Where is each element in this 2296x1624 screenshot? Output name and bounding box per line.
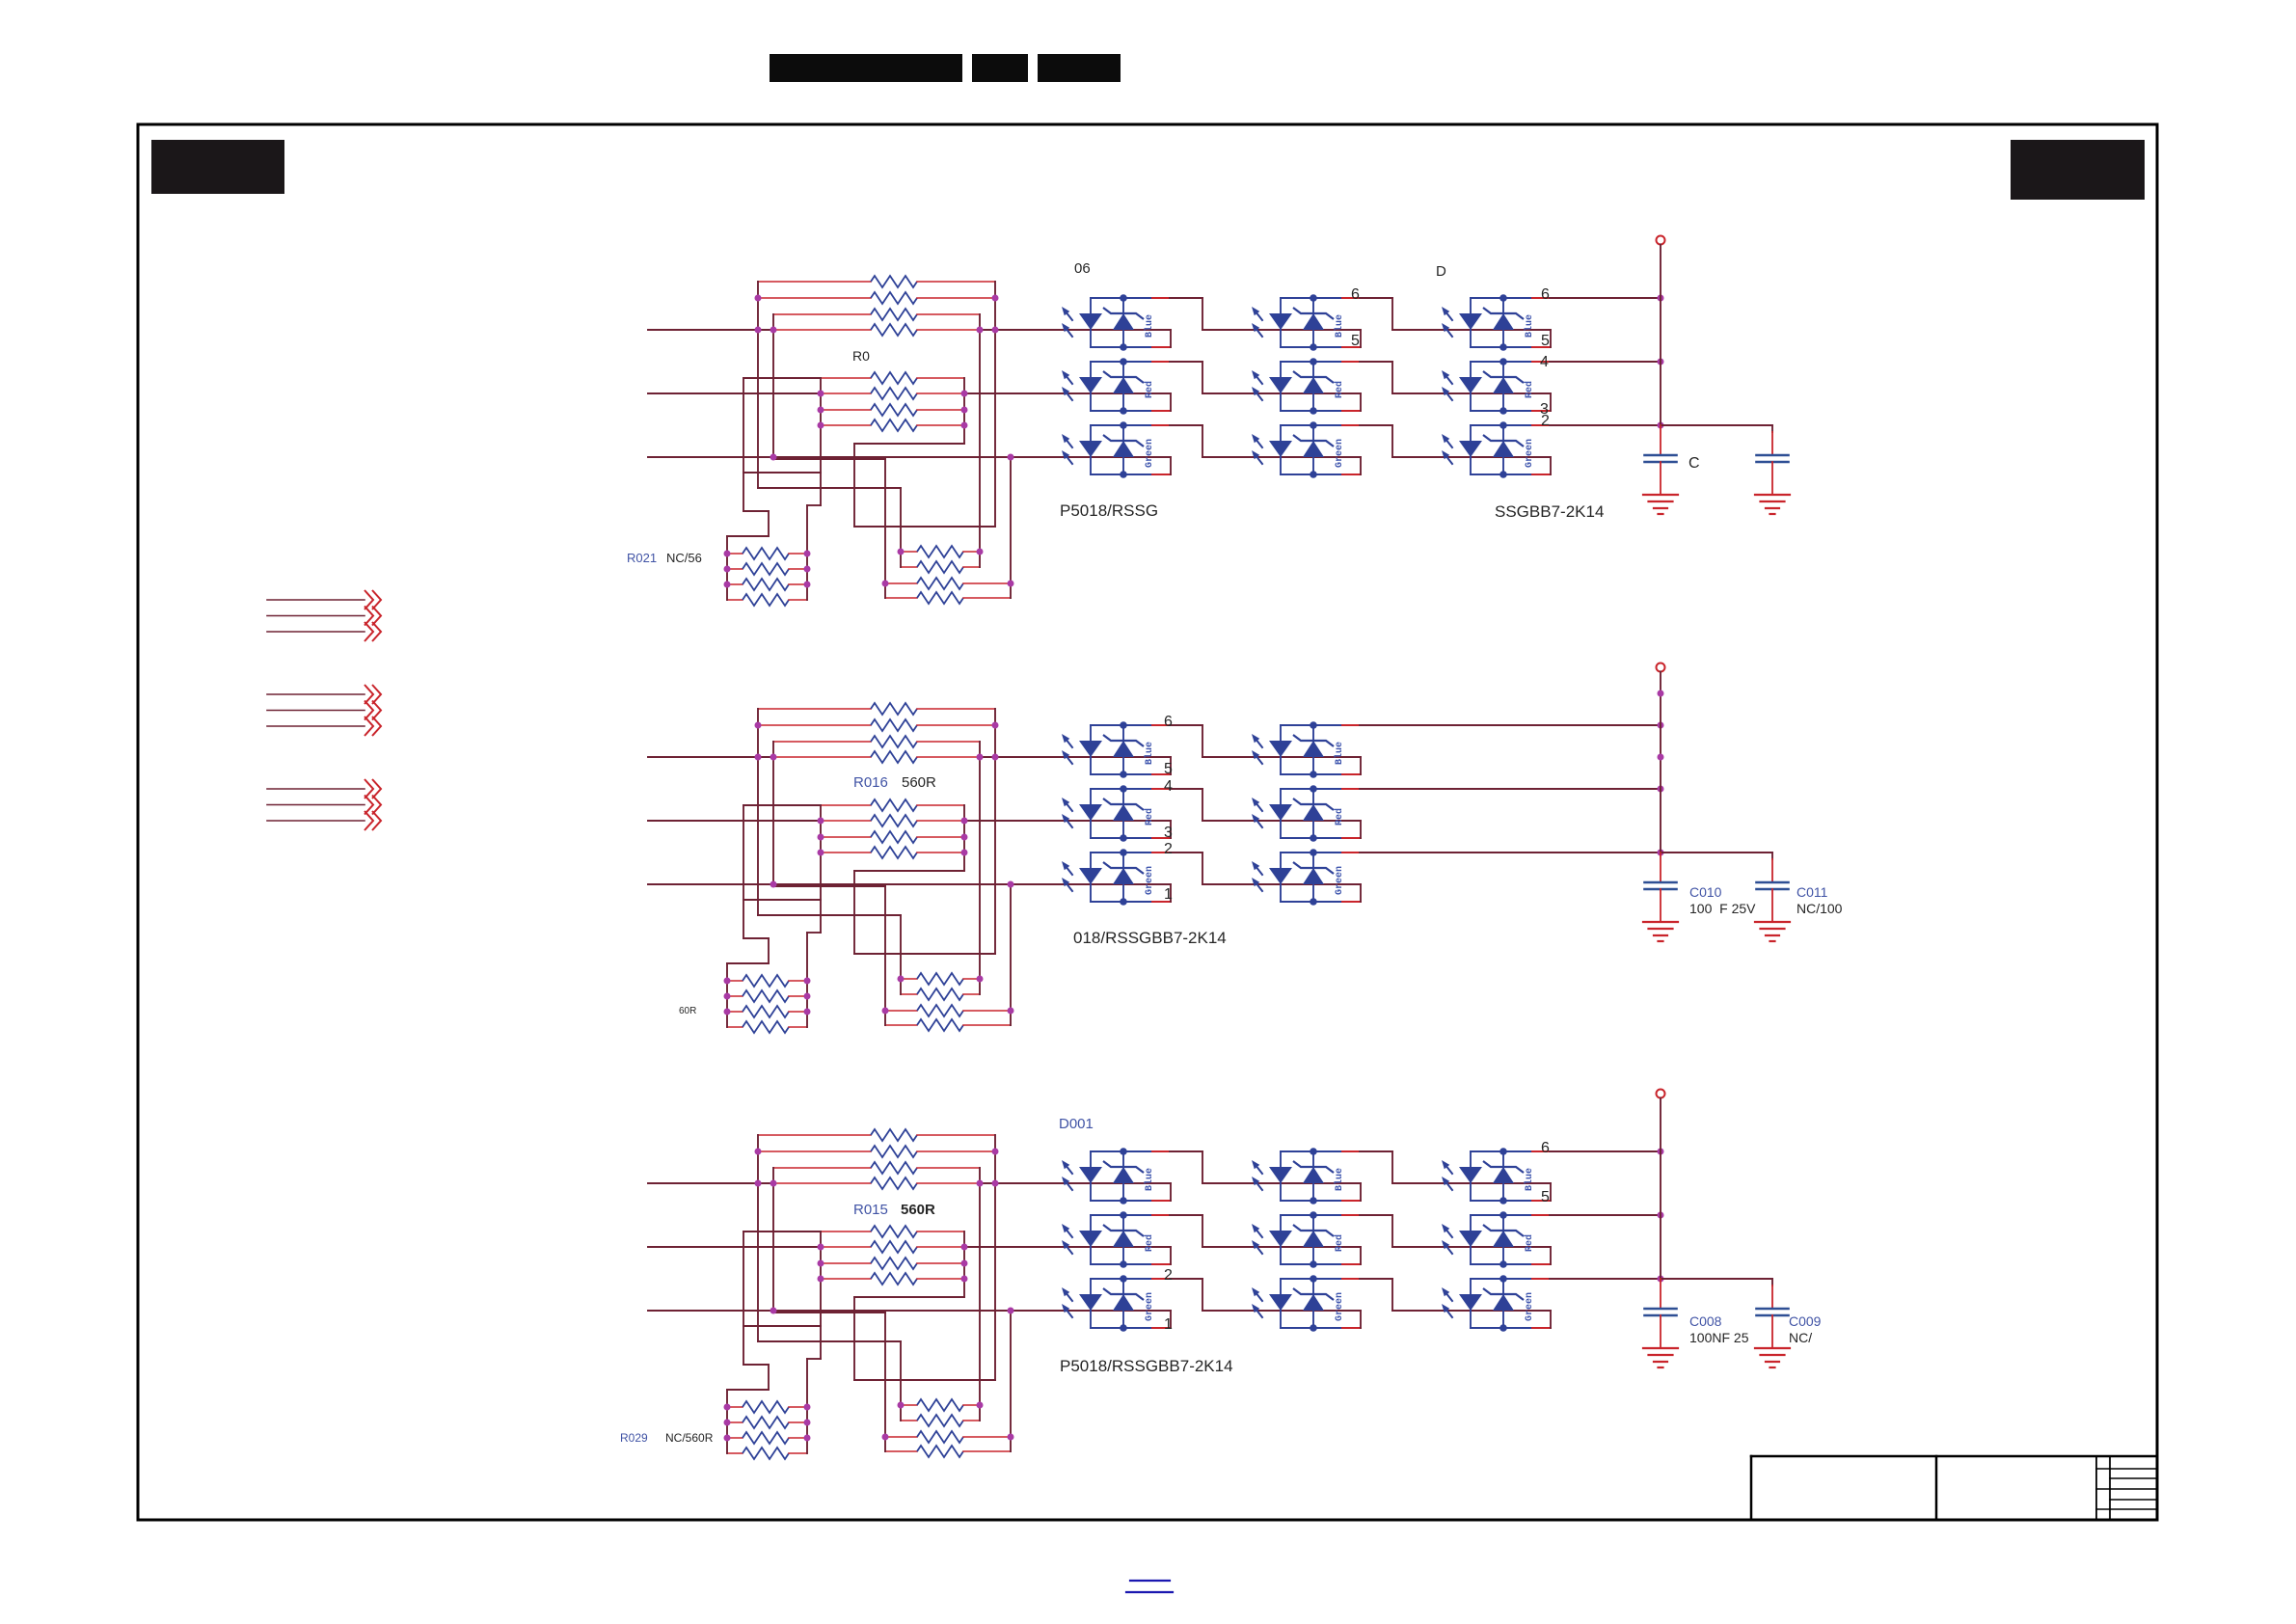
svg-text:R016: R016 (853, 774, 888, 791)
wire: cell dogleg (1360, 884, 1362, 902)
wire: series link (1360, 297, 1392, 299)
LED 018/RSSGBB7-2K14 col2 Green (1280, 853, 1282, 902)
LED D001 P5018/RSSGBB7-2K14 col2 Green (1280, 1279, 1282, 1328)
wire: series link (1170, 724, 1202, 726)
resistor network (bottom-right, unlabeled) (4x parallel) (901, 1404, 917, 1406)
svg-text:Green: Green (1335, 439, 1345, 468)
svg-text:5: 5 (1351, 333, 1360, 349)
svg-text:Red: Red (1524, 381, 1535, 398)
wire: series link (1170, 1214, 1202, 1216)
redaction box top-left (151, 140, 284, 194)
supply terminal (1657, 1090, 1665, 1098)
LED D P5018/RSSG col2 Red (1280, 362, 1282, 411)
wire: series link (1170, 361, 1202, 363)
wire: cell dogleg (1170, 757, 1172, 774)
wire: to supply bus (1550, 361, 1661, 363)
resistor network R0 (4x parallel) (821, 377, 871, 379)
svg-text:Red: Red (1334, 1234, 1345, 1252)
resistor network (top, unlabeled) (4x parallel) (758, 708, 871, 710)
resistor network 60R (4x parallel) (727, 980, 743, 982)
wire: series link (1360, 361, 1392, 363)
svg-text:6: 6 (1351, 286, 1360, 303)
LED D P5018/RSSG col3 Green (1470, 425, 1472, 474)
resistor network R029 NC/560R (4x parallel) (727, 1406, 743, 1408)
svg-text:5: 5 (1541, 1189, 1550, 1205)
svg-text:6: 6 (1541, 1140, 1550, 1156)
svg-text:R015: R015 (853, 1202, 888, 1218)
svg-text:D001: D001 (1059, 1116, 1094, 1132)
LED D001 P5018/RSSGBB7-2K14 col1 Red (1090, 1215, 1092, 1264)
svg-text:60R: 60R (679, 1006, 696, 1016)
redaction bar top 3 (1038, 54, 1121, 82)
footer underline 2 (1126, 1591, 1173, 1593)
svg-text:560R: 560R (902, 774, 936, 791)
ground (1755, 494, 1790, 496)
off-page connector group 3 (267, 788, 365, 790)
resistor network (bottom-right, unlabeled) (4x parallel) (901, 978, 917, 980)
resistor network (bottom-right, unlabeled) (4x parallel) (901, 551, 917, 553)
capacitor C010 100uF 25V (1645, 881, 1677, 884)
svg-text:Green: Green (1525, 439, 1535, 468)
redaction box top-right (2011, 140, 2145, 200)
wire: cell dogleg (1360, 457, 1362, 474)
svg-text:NC/56: NC/56 (666, 551, 702, 565)
resistor network (top, unlabeled) (4x parallel) (758, 281, 871, 283)
svg-text:P5018/RSSG: P5018/RSSG (1060, 501, 1158, 520)
wire: cell dogleg (1170, 393, 1172, 411)
supply terminal (1657, 236, 1665, 245)
LED D P5018/RSSG col1 Blue (1090, 298, 1092, 347)
wire: cell dogleg (1550, 1247, 1552, 1264)
interconnect wires (757, 709, 759, 915)
redaction bar top 2 (972, 54, 1028, 82)
wire: cell dogleg (1360, 821, 1362, 838)
wire: cell dogleg (1360, 393, 1362, 411)
svg-text:Red: Red (1334, 381, 1345, 398)
LED D P5018/RSSG col1 Red (1090, 362, 1092, 411)
wire: series link (1170, 852, 1202, 853)
wire: to cap2 (1661, 1278, 1772, 1280)
LED D P5018/RSSG col3 Blue (1470, 298, 1472, 347)
wire: series link (1170, 788, 1202, 790)
svg-text:3: 3 (1164, 825, 1173, 841)
svg-text:NC/: NC/ (1789, 1330, 1812, 1345)
svg-text:Blue: Blue (1334, 742, 1345, 765)
svg-text:NC/100: NC/100 (1796, 901, 1843, 916)
wire: series link (1170, 1150, 1202, 1152)
capacitor C009 NC/ (1757, 1308, 1789, 1311)
svg-text:4: 4 (1164, 778, 1173, 795)
svg-text:4: 4 (1540, 354, 1549, 370)
resistor network R021 NC/56 (4x parallel) (727, 553, 743, 555)
wire: cell dogleg (1550, 330, 1552, 347)
svg-text:NC/560R: NC/560R (665, 1431, 714, 1445)
wire: cell dogleg (1550, 393, 1552, 411)
wire: cell dogleg (1170, 1311, 1172, 1328)
svg-text:2: 2 (1164, 841, 1173, 857)
wire: to supply bus (1550, 424, 1661, 426)
svg-text:C010: C010 (1689, 884, 1722, 900)
svg-text:Red: Red (1144, 381, 1155, 398)
drawing frame (138, 124, 2157, 1520)
ground (1643, 1347, 1678, 1349)
LED D001 P5018/RSSGBB7-2K14 col2 Red (1280, 1215, 1282, 1264)
resistor network R015 560R (4x parallel) (821, 1231, 871, 1232)
wire: series link (1170, 297, 1202, 299)
svg-text:6: 6 (1164, 714, 1173, 730)
svg-text:C009: C009 (1789, 1313, 1822, 1329)
wire: to supply bus (1550, 1278, 1661, 1280)
svg-text:Blue: Blue (1144, 314, 1155, 338)
svg-text:018/RSSGBB7-2K14: 018/RSSGBB7-2K14 (1073, 929, 1227, 947)
wire: series link (1360, 1214, 1392, 1216)
svg-text:5: 5 (1541, 333, 1550, 349)
wire: cell dogleg (1170, 1247, 1172, 1264)
svg-text:C011: C011 (1796, 884, 1828, 900)
LED 018/RSSGBB7-2K14 col2 Blue (1280, 725, 1282, 774)
LED D P5018/RSSG col1 Green (1090, 425, 1092, 474)
off-page connector group 1 (267, 599, 365, 601)
wire: cell dogleg (1360, 1183, 1362, 1201)
svg-text:Blue: Blue (1524, 1168, 1535, 1191)
svg-text:Red: Red (1334, 808, 1345, 826)
svg-text:Green: Green (1335, 866, 1345, 895)
ground (1755, 921, 1790, 923)
LED D P5018/RSSG col2 Blue (1280, 298, 1282, 347)
svg-text:Green: Green (1335, 1292, 1345, 1321)
svg-text:1: 1 (1164, 1316, 1173, 1333)
footer underline 1 (1130, 1580, 1170, 1582)
svg-text:Green: Green (1145, 1292, 1155, 1321)
svg-text:Green: Green (1525, 1292, 1535, 1321)
wire: cell dogleg (1550, 1311, 1552, 1328)
svg-text:Red: Red (1144, 1234, 1155, 1252)
svg-text:Red: Red (1144, 808, 1155, 826)
LED D001 P5018/RSSGBB7-2K14 col3 Green (1470, 1279, 1472, 1328)
wire: cell dogleg (1360, 1247, 1362, 1264)
svg-text:2: 2 (1541, 413, 1550, 429)
interconnect wires (757, 282, 759, 488)
wire: to supply bus (1360, 724, 1661, 726)
svg-text:5: 5 (1164, 761, 1173, 777)
svg-text:Blue: Blue (1334, 1168, 1345, 1191)
wire: to supply bus (1550, 1214, 1661, 1216)
wire: series link (1360, 1278, 1392, 1280)
wire: cell dogleg (1360, 330, 1362, 347)
wire: supply bus (1660, 245, 1661, 426)
svg-text:Blue: Blue (1334, 314, 1345, 338)
wire: supply bus (1660, 672, 1661, 853)
title block (1751, 1455, 2157, 1458)
wire: series link (1170, 424, 1202, 426)
interconnect wires (757, 1135, 759, 1341)
capacitor C (1645, 454, 1677, 457)
svg-text:C: C (1688, 455, 1700, 472)
wire: to cap2 (1661, 852, 1772, 853)
wire: cell dogleg (1550, 1183, 1552, 1201)
ground (1755, 1347, 1790, 1349)
svg-text:1: 1 (1164, 886, 1173, 903)
svg-text:R0: R0 (852, 348, 870, 364)
LED D001 P5018/RSSGBB7-2K14 col2 Blue (1280, 1151, 1282, 1201)
svg-text:100NF 25: 100NF 25 (1689, 1330, 1749, 1345)
LED D001 P5018/RSSGBB7-2K14 col3 Blue (1470, 1151, 1472, 1201)
LED 018/RSSGBB7-2K14 col1 Red (1090, 789, 1092, 838)
supply terminal (1657, 663, 1665, 672)
redaction bar top 1 (770, 54, 962, 82)
wire: cell dogleg (1360, 1311, 1362, 1328)
svg-text:Green: Green (1145, 439, 1155, 468)
svg-text:Green: Green (1145, 866, 1155, 895)
wire: input rows (648, 1182, 774, 1184)
wire: cell dogleg (1170, 821, 1172, 838)
capacitor (unlabeled) (1757, 454, 1789, 457)
svg-text:P5018/RSSGBB7-2K14: P5018/RSSGBB7-2K14 (1060, 1357, 1233, 1375)
svg-text:6: 6 (1541, 286, 1550, 303)
LED 018/RSSGBB7-2K14 col1 Green (1090, 853, 1092, 902)
wire: supply bus (1660, 1098, 1661, 1280)
LED 018/RSSGBB7-2K14 col2 Red (1280, 789, 1282, 838)
wire: series link (1360, 1150, 1392, 1152)
wire: series link (1360, 424, 1392, 426)
resistor network (top, unlabeled) (4x parallel) (758, 1134, 871, 1136)
svg-text:Red: Red (1524, 1234, 1535, 1252)
ground (1643, 494, 1678, 496)
wire: series link (1170, 1278, 1202, 1280)
wire: to cap2 (1661, 424, 1772, 426)
off-page connector group 2 (267, 693, 365, 695)
wire: cell dogleg (1360, 757, 1362, 774)
wire: cell dogleg (1170, 330, 1172, 347)
wire: cell dogleg (1170, 1183, 1172, 1201)
svg-text:D: D (1436, 263, 1446, 280)
svg-text:R021: R021 (627, 551, 657, 565)
wire: to supply bus (1360, 852, 1661, 853)
wire: input rows (648, 329, 774, 331)
LED D001 P5018/RSSGBB7-2K14 col3 Red (1470, 1215, 1472, 1264)
svg-text:SSGBB7-2K14: SSGBB7-2K14 (1495, 502, 1604, 521)
svg-text:560R: 560R (901, 1202, 935, 1218)
LED 018/RSSGBB7-2K14 col1 Blue (1090, 725, 1092, 774)
svg-text:06: 06 (1074, 260, 1091, 277)
capacitor C008 100NF 25 (1645, 1308, 1677, 1311)
LED D001 P5018/RSSGBB7-2K14 col1 Blue (1090, 1151, 1092, 1201)
wire: to supply bus (1360, 788, 1661, 790)
svg-text:Blue: Blue (1144, 742, 1155, 765)
wire: cell dogleg (1170, 457, 1172, 474)
wire: input rows (648, 756, 774, 758)
wire: cell dogleg (1170, 884, 1172, 902)
svg-text:C008: C008 (1689, 1313, 1722, 1329)
resistor network R016 560R (4x parallel) (821, 804, 871, 806)
ground (1643, 921, 1678, 923)
svg-text:Blue: Blue (1144, 1168, 1155, 1191)
svg-text:100 F 25V: 100 F 25V (1689, 901, 1756, 916)
wire: cell dogleg (1550, 457, 1552, 474)
svg-text:Blue: Blue (1524, 314, 1535, 338)
wire: to supply bus (1550, 297, 1661, 299)
LED D P5018/RSSG col3 Red (1470, 362, 1472, 411)
LED D P5018/RSSG col2 Green (1280, 425, 1282, 474)
svg-text:2: 2 (1164, 1267, 1173, 1284)
capacitor C011 NC/100 (1757, 881, 1789, 884)
svg-text:R029: R029 (620, 1431, 648, 1445)
LED D001 P5018/RSSGBB7-2K14 col1 Green (1090, 1279, 1092, 1328)
wire: to supply bus (1550, 1150, 1661, 1152)
